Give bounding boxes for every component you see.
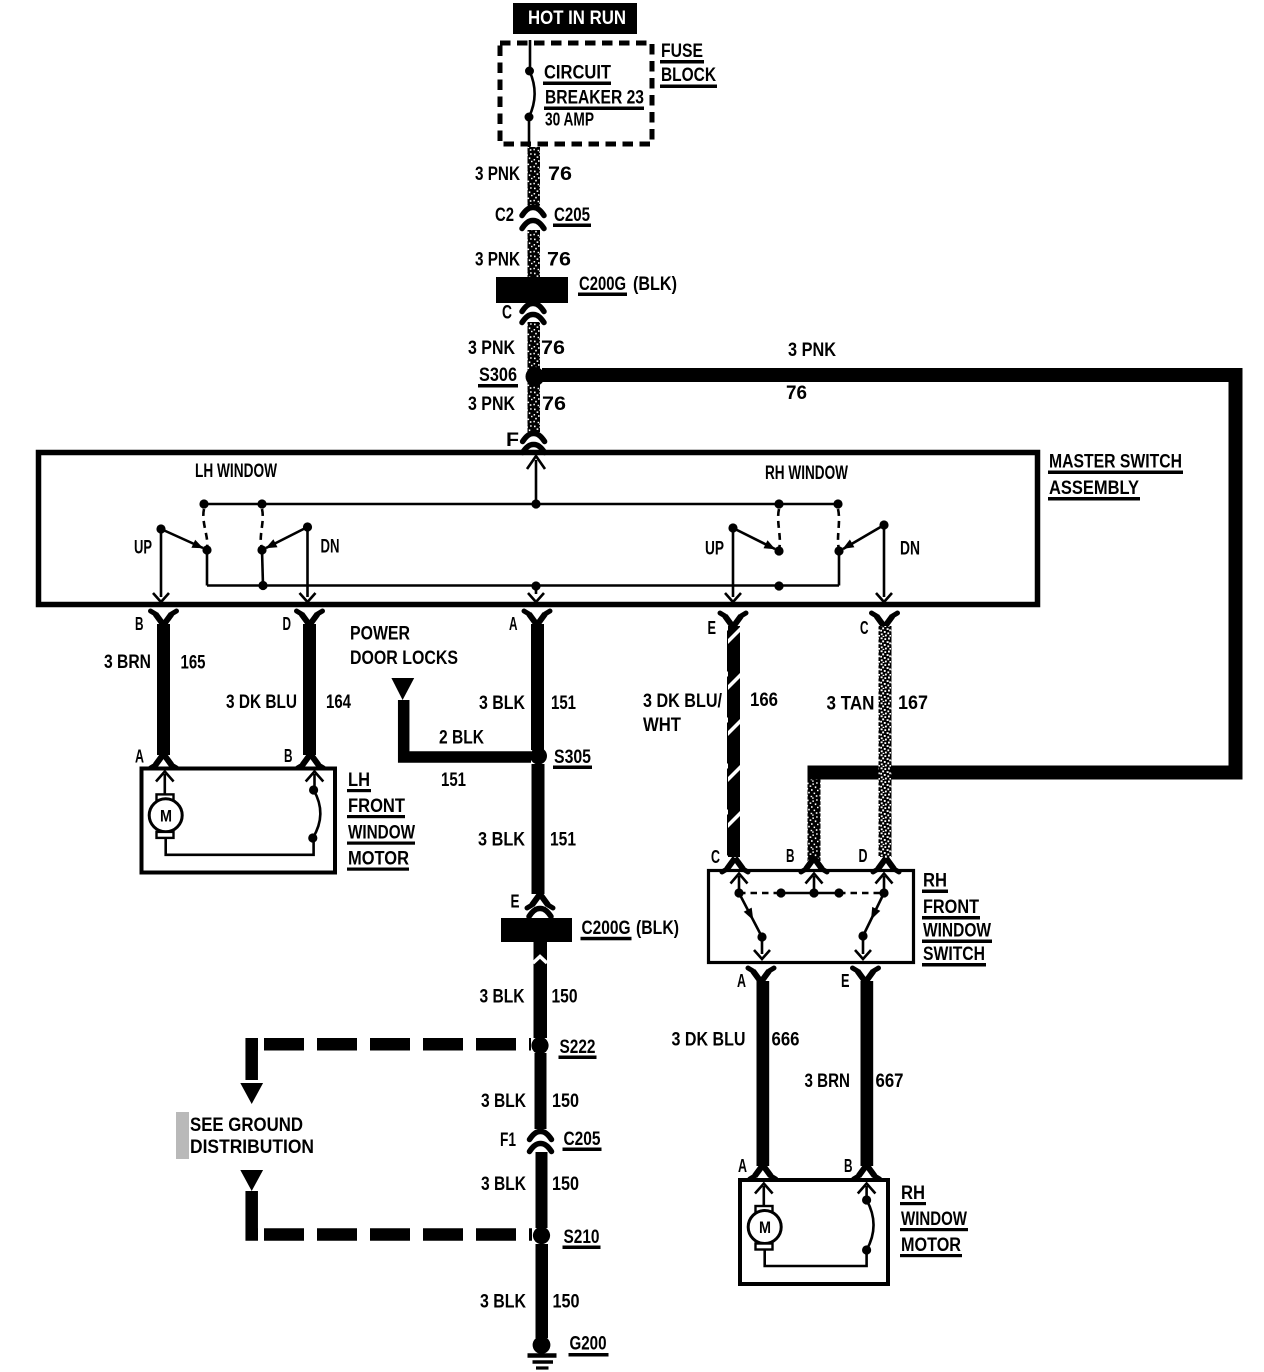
wire LH motor internal return bbox=[166, 838, 314, 855]
svg-text:3 BLK: 3 BLK bbox=[479, 692, 525, 714]
svg-text:(BLK): (BLK) bbox=[633, 273, 677, 295]
svg-text:FUSE: FUSE bbox=[661, 40, 703, 62]
RH switch arm D to E bbox=[855, 893, 884, 959]
splice S222 bbox=[531, 1036, 596, 1059]
wire 3 PNK 76 feed loop to RH switch bbox=[542, 375, 1236, 861]
svg-text:3 BRN: 3 BRN bbox=[104, 651, 151, 673]
svg-text:DN: DN bbox=[321, 537, 340, 558]
svg-text:HOT IN RUN: HOT IN RUN bbox=[528, 8, 626, 29]
wire 3 TAN 167 bbox=[879, 626, 892, 857]
svg-text:2 BLK: 2 BLK bbox=[439, 727, 484, 749]
svg-text:SWITCH: SWITCH bbox=[923, 943, 985, 965]
wire top bus bbox=[204, 503, 838, 506]
svg-text:FRONT: FRONT bbox=[923, 896, 979, 918]
label 3 BLK 151 upper bbox=[479, 692, 576, 714]
svg-text:3 BLK: 3 BLK bbox=[481, 1090, 526, 1112]
terminal D master switch bbox=[283, 611, 323, 634]
node junction dots top bus bbox=[199, 499, 842, 508]
svg-text:150: 150 bbox=[552, 1090, 579, 1112]
svg-text:667: 667 bbox=[876, 1070, 904, 1092]
wire 3 DK BLU 164 bbox=[303, 624, 316, 755]
LH motor terminal A arrow bbox=[156, 772, 174, 795]
node A tap arrow to terminal bbox=[528, 586, 544, 602]
master switch assembly box bbox=[39, 453, 1038, 605]
label 3 BLK 151 lower bbox=[478, 829, 576, 851]
svg-text:167: 167 bbox=[898, 692, 928, 714]
svg-text:MOTOR: MOTOR bbox=[901, 1234, 961, 1256]
svg-text:M: M bbox=[759, 1218, 771, 1237]
svg-text:76: 76 bbox=[541, 337, 565, 359]
svg-text:166: 166 bbox=[750, 689, 778, 711]
svg-text:165: 165 bbox=[181, 652, 206, 674]
label POWER DOOR LOCKS bbox=[350, 623, 458, 670]
terminal E RH switch bbox=[841, 968, 879, 991]
wire 3 PNK 76 C2 to C200G bbox=[528, 230, 541, 277]
label 3 PNK 76 (4) bbox=[468, 393, 566, 415]
terminal C RH switch bbox=[711, 846, 748, 872]
svg-text:150: 150 bbox=[552, 1173, 579, 1195]
svg-text:76: 76 bbox=[786, 382, 807, 404]
svg-text:150: 150 bbox=[552, 986, 578, 1008]
svg-text:76: 76 bbox=[548, 163, 572, 185]
label 3 PNK 76 (3) bbox=[468, 337, 565, 359]
svg-text:C: C bbox=[502, 302, 512, 324]
connector C bbox=[502, 302, 544, 324]
svg-text:3 DK BLU/: 3 DK BLU/ bbox=[643, 690, 722, 712]
terminal E master switch bbox=[708, 613, 747, 638]
wire 3 PNK 76 breaker to C2 bbox=[528, 147, 541, 208]
splice S210 bbox=[533, 1226, 601, 1249]
label 3 BLK 150 (4) bbox=[480, 1291, 580, 1313]
terminal A LH motor bbox=[135, 746, 177, 769]
svg-text:3 BLK: 3 BLK bbox=[478, 829, 525, 851]
svg-text:M: M bbox=[160, 807, 172, 826]
wire 3 BRN 165 bbox=[157, 624, 170, 755]
RH front window switch box bbox=[709, 871, 914, 963]
LH front window motor box bbox=[142, 769, 336, 873]
svg-text:3 PNK: 3 PNK bbox=[475, 163, 520, 185]
svg-text:LH WINDOW: LH WINDOW bbox=[195, 461, 277, 482]
ground distribution arrow lower bbox=[240, 1170, 263, 1191]
svg-text:S306: S306 bbox=[479, 364, 517, 386]
node F feed arrow into switch bbox=[527, 456, 545, 504]
circuit breaker 23 symbol bbox=[525, 40, 535, 147]
svg-text:WINDOW: WINDOW bbox=[901, 1208, 967, 1230]
svg-text:B: B bbox=[284, 745, 293, 766]
connector C2 C205 bbox=[495, 204, 591, 229]
svg-text:S222: S222 bbox=[560, 1036, 596, 1058]
connector F bbox=[506, 429, 545, 453]
svg-text:3 TAN: 3 TAN bbox=[827, 693, 875, 715]
svg-text:C200G: C200G bbox=[579, 273, 626, 295]
svg-text:3 BLK: 3 BLK bbox=[481, 1173, 526, 1195]
LH front window motor label bbox=[347, 769, 415, 871]
RH front window switch label bbox=[922, 870, 992, 967]
terminal A RH switch bbox=[737, 968, 774, 991]
svg-text:G200: G200 bbox=[570, 1333, 607, 1355]
svg-text:3 BLK: 3 BLK bbox=[480, 986, 525, 1008]
wire 3 BLK 150 top bbox=[533, 942, 547, 1038]
fuse block label bbox=[660, 40, 717, 88]
svg-text:C205: C205 bbox=[564, 1128, 601, 1150]
wire RH motor internal return bbox=[765, 1250, 867, 1267]
wire 3 BRN 667 bbox=[861, 981, 874, 1166]
power door locks feed arrow bbox=[391, 678, 414, 700]
svg-text:S210: S210 bbox=[564, 1226, 600, 1248]
wire 3 BLK 150 (4) bbox=[536, 1244, 549, 1338]
wire 3 BLK 150 (3) bbox=[536, 1152, 548, 1228]
svg-text:150: 150 bbox=[553, 1291, 580, 1313]
svg-text:LH: LH bbox=[348, 769, 370, 791]
RH motor terminal B arrow bbox=[858, 1184, 876, 1201]
svg-text:3 PNK: 3 PNK bbox=[475, 249, 520, 271]
label 3 BLK 150 (1) bbox=[480, 986, 578, 1008]
svg-text:MOTOR: MOTOR bbox=[348, 848, 409, 870]
HOT IN RUN power tag bbox=[513, 3, 637, 34]
svg-text:A: A bbox=[738, 1155, 747, 1176]
svg-text:BREAKER 23: BREAKER 23 bbox=[545, 87, 644, 109]
RH switch terminal D arrow bbox=[876, 874, 893, 894]
RH switch terminal C arrow bbox=[731, 874, 748, 894]
svg-text:151: 151 bbox=[551, 692, 576, 714]
svg-text:RH: RH bbox=[923, 870, 947, 892]
RH motor terminal A arrow bbox=[755, 1184, 773, 1207]
terminal A master switch bbox=[509, 611, 550, 634]
LH window DN switch bbox=[257, 509, 339, 602]
svg-text:UP: UP bbox=[134, 538, 152, 559]
master switch assembly label bbox=[1048, 451, 1183, 501]
wire 3 PNK 76 C to F bbox=[528, 322, 541, 432]
RH switch terminal B arrow bbox=[806, 874, 823, 894]
svg-text:3 PNK: 3 PNK bbox=[468, 337, 515, 359]
wire dashed ground distribution upper bbox=[252, 1044, 531, 1080]
RH switch arm C to A bbox=[739, 893, 770, 959]
LH motor breaker contact bbox=[308, 785, 320, 842]
terminal C master switch bbox=[860, 613, 898, 638]
label 3 DK BLU 666 bbox=[672, 1029, 800, 1051]
wire 2 BLK 151 bbox=[404, 700, 531, 757]
label SEE GROUND DISTRIBUTION bbox=[176, 1112, 314, 1159]
svg-text:F1: F1 bbox=[500, 1129, 516, 1151]
svg-text:3 BRN: 3 BRN bbox=[805, 1070, 851, 1092]
svg-text:RH: RH bbox=[901, 1182, 925, 1204]
svg-text:76: 76 bbox=[547, 249, 571, 271]
svg-text:D: D bbox=[859, 845, 868, 866]
wire dashed ground distribution lower bbox=[252, 1191, 532, 1235]
splice S305 bbox=[530, 746, 592, 769]
grommet C200G (BLK) lower bbox=[501, 917, 679, 942]
terminal B RH motor bbox=[844, 1155, 880, 1179]
label 3 DK BLU 164 bbox=[226, 691, 351, 713]
LH motor terminal B arrow bbox=[306, 772, 324, 791]
svg-text:WINDOW: WINDOW bbox=[923, 920, 991, 942]
svg-text:3 PNK: 3 PNK bbox=[788, 339, 836, 361]
circuit breaker 23 label bbox=[543, 62, 644, 130]
svg-text:3 BLK: 3 BLK bbox=[480, 1291, 526, 1313]
svg-text:UP: UP bbox=[705, 539, 724, 560]
wire 3 DK BLU/WHT 166 bbox=[727, 626, 740, 857]
label 3 BRN 667 bbox=[805, 1070, 904, 1092]
label 3 BRN 165 bbox=[104, 651, 206, 674]
svg-text:S305: S305 bbox=[554, 746, 591, 768]
svg-text:C205: C205 bbox=[554, 204, 590, 226]
ground distribution arrow upper bbox=[240, 1083, 263, 1104]
svg-text:30 AMP: 30 AMP bbox=[545, 109, 594, 130]
label 3 TAN 167 bbox=[827, 692, 929, 715]
svg-text:A: A bbox=[135, 746, 144, 767]
svg-text:D: D bbox=[283, 613, 292, 634]
terminal E body connector bbox=[511, 891, 554, 917]
LH window UP switch bbox=[134, 509, 212, 602]
svg-text:E: E bbox=[511, 891, 520, 912]
svg-text:WINDOW: WINDOW bbox=[348, 822, 415, 844]
svg-text:C200G: C200G bbox=[582, 917, 631, 939]
terminal A RH motor bbox=[738, 1155, 776, 1179]
svg-text:B: B bbox=[786, 845, 795, 866]
RH motor breaker contact bbox=[862, 1195, 874, 1254]
RH window motor label bbox=[900, 1182, 968, 1257]
svg-text:DN: DN bbox=[900, 539, 920, 560]
wire 3 DK BLU 666 bbox=[757, 981, 770, 1166]
svg-text:DISTRIBUTION: DISTRIBUTION bbox=[190, 1136, 314, 1158]
terminal B master switch bbox=[135, 611, 177, 634]
svg-text:E: E bbox=[841, 970, 850, 991]
svg-text:164: 164 bbox=[326, 691, 351, 713]
terminal B LH motor bbox=[284, 745, 324, 768]
svg-text:RH WINDOW: RH WINDOW bbox=[765, 463, 848, 484]
svg-text:3 DK BLU: 3 DK BLU bbox=[672, 1029, 746, 1051]
svg-text:C2: C2 bbox=[495, 204, 514, 226]
svg-text:SEE GROUND: SEE GROUND bbox=[190, 1114, 303, 1136]
fuse block dashed box bbox=[500, 43, 652, 144]
label 3 PNK 76 (1) bbox=[475, 163, 572, 185]
svg-text:DOOR LOCKS: DOOR LOCKS bbox=[350, 647, 458, 669]
svg-text:C: C bbox=[711, 846, 720, 867]
node junction dots bottom bus bbox=[258, 581, 783, 591]
terminal D RH switch bbox=[859, 845, 900, 872]
svg-text:BLOCK: BLOCK bbox=[661, 64, 716, 86]
svg-text:B: B bbox=[135, 613, 144, 634]
svg-text:76: 76 bbox=[542, 393, 566, 415]
motor M LH bbox=[149, 794, 182, 838]
svg-text:666: 666 bbox=[772, 1029, 800, 1051]
svg-text:(BLK): (BLK) bbox=[636, 917, 679, 939]
svg-text:F: F bbox=[506, 429, 519, 451]
svg-text:A: A bbox=[737, 970, 746, 991]
label 3 BLK 150 (3) bbox=[481, 1173, 579, 1195]
RH window DN switch bbox=[834, 509, 920, 602]
svg-text:C: C bbox=[860, 617, 869, 638]
RH switch common bar bbox=[734, 888, 888, 897]
wire 3 BLK 151 upper bbox=[531, 624, 544, 750]
wire 3 BLK 151 lower bbox=[532, 764, 545, 894]
terminal B RH switch bbox=[786, 845, 827, 872]
connector F1 C205 bbox=[500, 1128, 602, 1152]
svg-text:WHT: WHT bbox=[643, 714, 681, 736]
svg-text:3 PNK: 3 PNK bbox=[468, 393, 515, 415]
RH window UP switch bbox=[705, 509, 784, 602]
RH window motor box bbox=[740, 1180, 888, 1284]
svg-text:B: B bbox=[844, 1155, 853, 1176]
svg-text:E: E bbox=[708, 617, 717, 638]
svg-text:POWER: POWER bbox=[350, 623, 410, 645]
label 3 DK BLU/WHT 166 bbox=[643, 689, 778, 736]
grommet C200G (BLK) upper bbox=[496, 273, 677, 303]
splice S306 bbox=[478, 364, 545, 388]
svg-text:ASSEMBLY: ASSEMBLY bbox=[1049, 477, 1139, 499]
label 3 PNK 76 (2) bbox=[475, 249, 571, 271]
ground G200 bbox=[528, 1333, 609, 1369]
wire 3 BLK 150 (2) bbox=[535, 1053, 547, 1129]
svg-text:A: A bbox=[509, 613, 518, 634]
svg-text:3 DK BLU: 3 DK BLU bbox=[226, 691, 297, 713]
svg-text:CIRCUIT: CIRCUIT bbox=[544, 62, 611, 84]
svg-text:FRONT: FRONT bbox=[348, 795, 405, 817]
motor M RH bbox=[748, 1206, 781, 1250]
svg-text:151: 151 bbox=[441, 769, 466, 791]
svg-text:151: 151 bbox=[550, 829, 576, 851]
svg-text:MASTER SWITCH: MASTER SWITCH bbox=[1049, 451, 1182, 473]
label 3 BLK 150 (2) bbox=[481, 1090, 579, 1112]
wire bottom bus bbox=[207, 550, 839, 586]
